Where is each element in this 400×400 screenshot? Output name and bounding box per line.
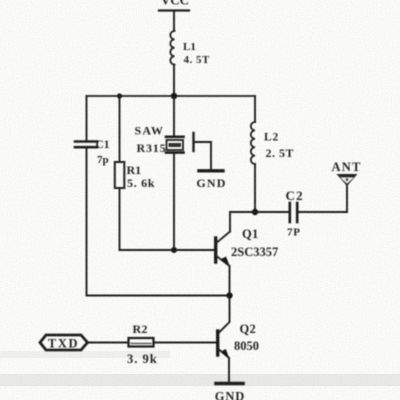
- capacitor C2: [286, 188, 304, 239]
- capacitor C1: [75, 139, 110, 166]
- wire VCC to L1: [173, 11, 175, 31]
- wire L2 to collector node: [254, 164, 256, 212]
- transistor Q1 2SC3357: [216, 227, 279, 266]
- SAW resonator R315: [135, 124, 184, 156]
- inductor L1: [170, 31, 210, 66]
- wire Q2 emitter down: [228, 358, 230, 382]
- wire rail to C1: [86, 96, 88, 140]
- input tag TXD: [40, 335, 88, 351]
- wire R2 to Q2 base: [154, 342, 217, 344]
- antenna ANT: [332, 160, 362, 186]
- wire C2 to antenna: [299, 186, 348, 212]
- wire C1 down left side: [87, 149, 230, 296]
- node junction emitter/feedback: [226, 292, 232, 298]
- wire L1 to rail: [173, 65, 175, 96]
- scan artifact band bottom: [0, 374, 400, 386]
- wire rail to L2: [254, 96, 256, 122]
- wire rail to SAW: [173, 96, 175, 136]
- power VCC: [159, 0, 189, 11]
- resistor R1: [115, 162, 155, 190]
- wire SAW case to ground: [194, 142, 212, 169]
- node junction R1 rail: [117, 93, 122, 98]
- resistor R2: [127, 322, 158, 366]
- ground (Q2 emitter): [215, 384, 245, 400]
- wire Q2 collector up: [218, 296, 230, 334]
- ground (SAW case): [196, 171, 226, 190]
- node junction L2/C2/collector: [252, 209, 258, 215]
- wire collector line to C2: [230, 211, 289, 213]
- inductor L2: [251, 122, 294, 164]
- wire top rail: [87, 95, 256, 97]
- wire Q1 collector up: [229, 212, 231, 232]
- wire R1 down to base line: [120, 188, 215, 250]
- wire SAW to base line: [173, 154, 175, 251]
- node junction SAW/base line: [171, 247, 177, 253]
- wire TXD to R2: [88, 342, 129, 344]
- wire Q1 emitter down: [229, 266, 231, 296]
- SAW case electrode: [192, 133, 194, 151]
- transistor Q2 8050: [218, 322, 259, 358]
- wire rail to R1: [119, 96, 121, 162]
- node junction VCC rail: [171, 93, 177, 99]
